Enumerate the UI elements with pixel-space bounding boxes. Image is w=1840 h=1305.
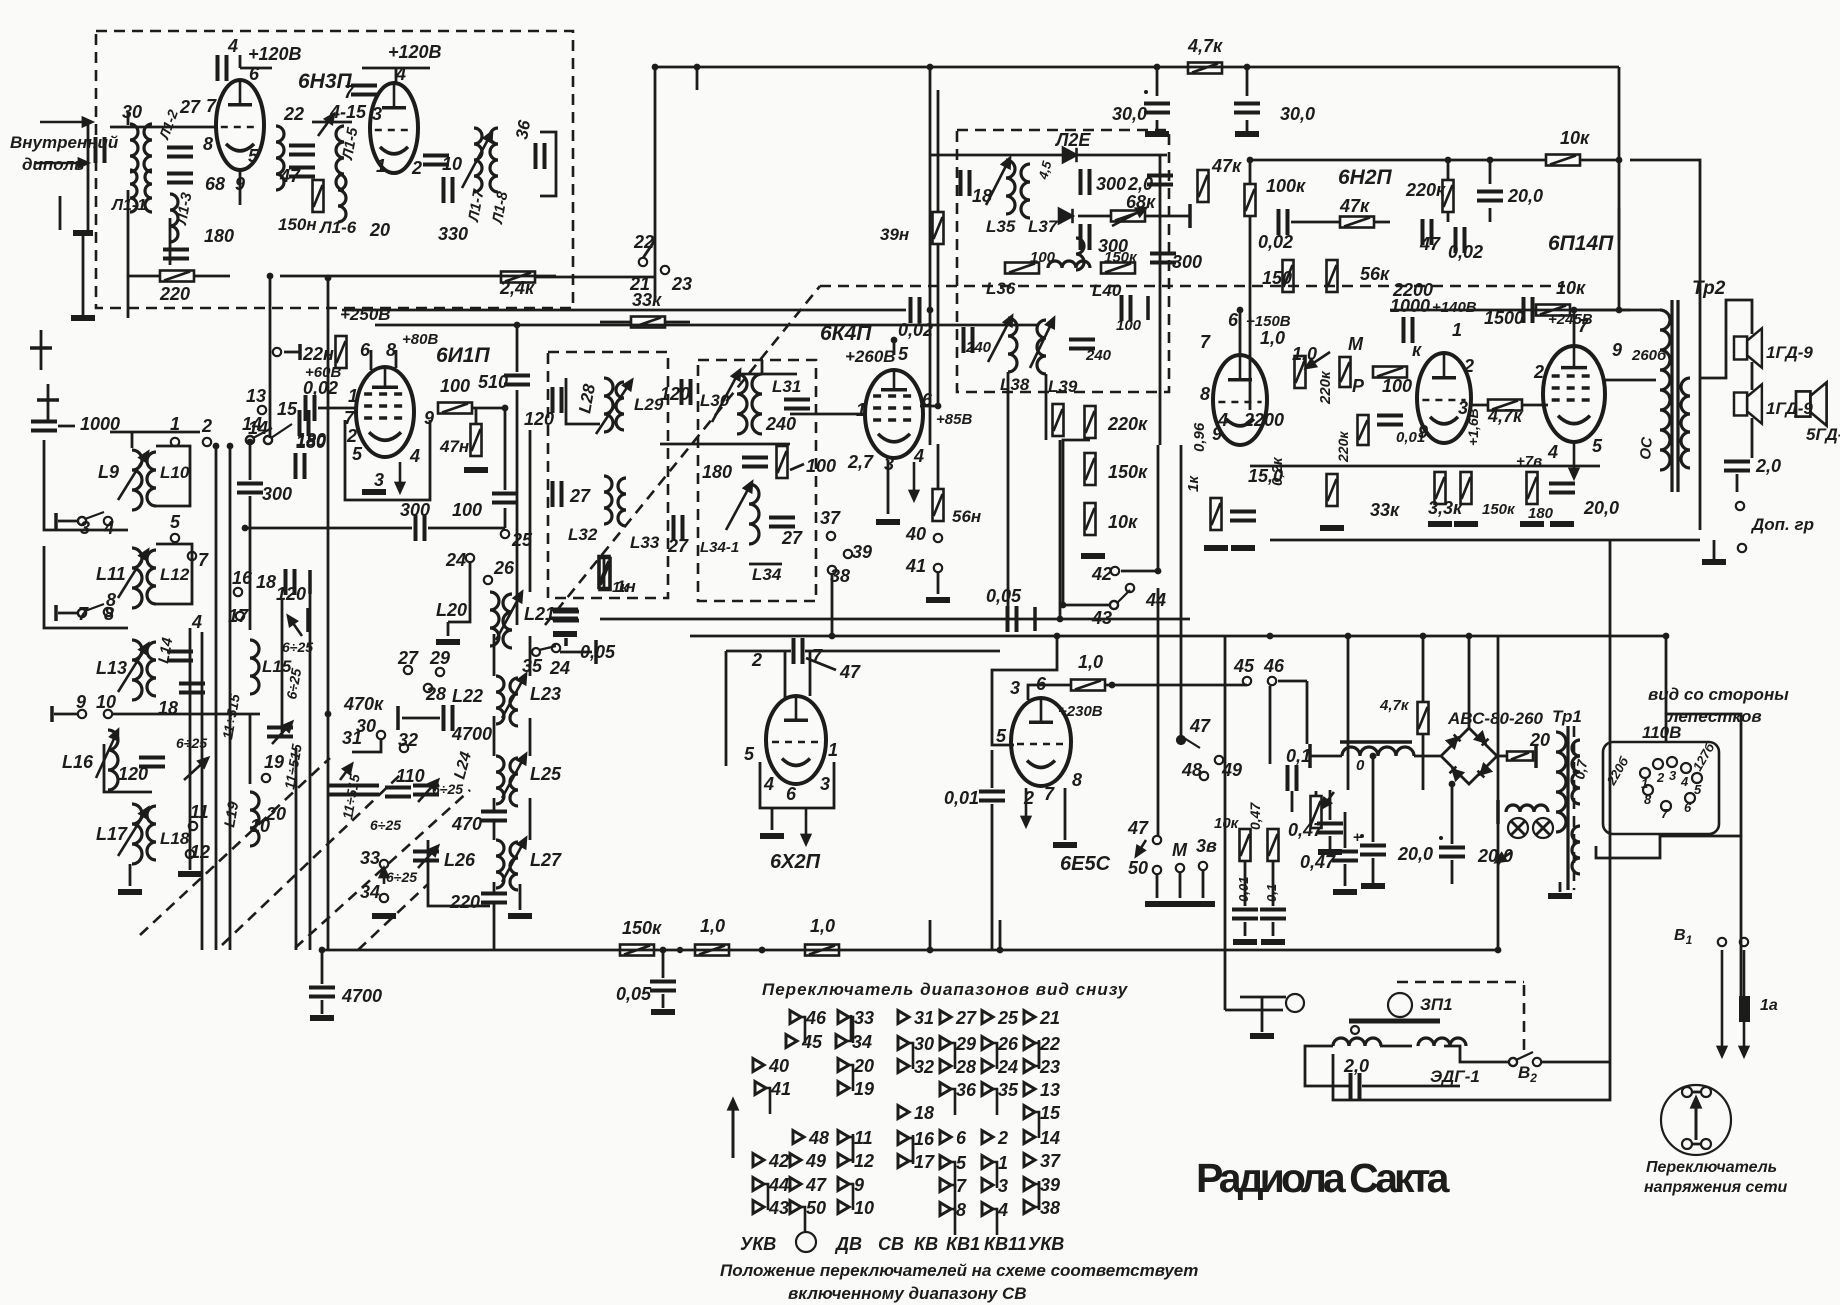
IF box 1 (548, 352, 668, 598)
svg-text:АВС-80-260: АВС-80-260 (1447, 709, 1544, 728)
matrix contact 19 (838, 1082, 849, 1095)
bar 1kr (564, 638, 568, 646)
svg-text:28: 28 (425, 684, 446, 704)
junction dot 22 (514, 322, 521, 329)
wire b2 top2 (761, 360, 764, 374)
coil L16 (108, 730, 118, 790)
svg-text:120: 120 (276, 584, 306, 604)
matrix contact 3 (982, 1179, 993, 1192)
svg-text:30,0: 30,0 (1112, 104, 1147, 124)
svg-text:L34: L34 (752, 565, 782, 584)
svg-text:10к: 10к (1108, 512, 1138, 532)
gang diagonal 2 (222, 775, 400, 945)
wire 47k r (1374, 221, 1390, 224)
svg-text:1,0: 1,0 (1078, 652, 1103, 672)
wire 47ps dn (1422, 734, 1425, 790)
junction dot 27 (213, 443, 220, 450)
svg-text:30: 30 (122, 102, 142, 122)
tube V4b 6Н2П (1417, 353, 1471, 443)
speaker 5ГД-14 (1796, 382, 1827, 425)
resistor 56н (933, 489, 944, 521)
speaker 1ГД-9 a (1734, 328, 1762, 367)
gnd 20,0 (1550, 521, 1574, 527)
svg-text:+140В: +140В (1432, 299, 1477, 316)
wire x930 bot (929, 920, 932, 950)
wire to grid (318, 407, 358, 410)
matrix contact 42 (753, 1154, 764, 1167)
svg-text:1: 1 (1641, 776, 1648, 791)
svg-text:21: 21 (1039, 1008, 1060, 1028)
wire L20 l (448, 562, 470, 622)
svg-text:22: 22 (633, 232, 654, 252)
wire 220k up (1447, 160, 1450, 180)
matrix contact 33 (838, 1011, 853, 1044)
selector pin 8 (1643, 785, 1653, 795)
wire x494 d (493, 822, 496, 840)
junction dot 26 (247, 439, 254, 446)
svg-text:300: 300 (400, 500, 430, 520)
svg-text:50: 50 (1128, 858, 1148, 878)
resistor 68к fm (1111, 211, 1145, 222)
gnd 33 (372, 913, 396, 919)
matrix contact 7 (940, 1179, 955, 1212)
wire ind top (1028, 685, 1071, 700)
matrix contact 13 (1024, 1083, 1035, 1096)
junction dot 42 (891, 337, 898, 344)
svg-text:27: 27 (569, 486, 591, 506)
node 43 (1110, 601, 1118, 609)
svg-text:0,02: 0,02 (303, 378, 338, 398)
wire k4 plate (893, 340, 896, 355)
resistor 2,4к (501, 272, 535, 283)
node 46 (1268, 677, 1276, 685)
wire motor 1 (1380, 1045, 1412, 1048)
junction b (759, 947, 765, 953)
bridge diode 2 (1475, 732, 1488, 745)
wire L9-1 (110, 431, 200, 434)
wire 47ps up (1422, 636, 1425, 702)
node 49c (1215, 756, 1223, 764)
svg-text:0,02: 0,02 (1258, 232, 1293, 252)
svg-text:L36: L36 (986, 279, 1016, 298)
motor coil a (1333, 1038, 1381, 1046)
wire det shield (725, 651, 728, 766)
svg-text:39: 39 (1040, 1175, 1060, 1195)
junction dot 31 (1178, 737, 1185, 744)
svg-text:2,4к: 2,4к (499, 278, 535, 298)
coil L25 (510, 758, 518, 806)
svg-text:22: 22 (283, 104, 304, 124)
svg-text:37: 37 (1040, 1151, 1061, 1171)
coil L21 (503, 594, 512, 648)
svg-text:1000: 1000 (1390, 296, 1430, 316)
L24 trimmer (502, 754, 526, 798)
resistor 220к mid (1085, 406, 1096, 438)
wire y444 (660, 443, 790, 446)
svg-text:6: 6 (249, 64, 260, 84)
svg-text:48: 48 (808, 1128, 829, 1148)
wire 30b dn (1246, 120, 1249, 132)
wire x1307 dn (1306, 681, 1309, 744)
tube V2 6И1П (356, 367, 414, 457)
svg-text:6И1П: 6И1П (436, 344, 490, 367)
bus top (655, 66, 1619, 69)
terminal 3 (54, 513, 58, 529)
svg-text:Тр1: Тр1 (1552, 707, 1582, 726)
wire L1 join (110, 126, 152, 129)
svg-text:1к: 1к (1185, 475, 1202, 492)
junction dot 9 (927, 947, 934, 954)
junction dot 28 (227, 443, 234, 450)
matrix contact 18 (898, 1106, 909, 1119)
pot tone (1311, 796, 1322, 828)
L16 trimmer (96, 730, 118, 778)
wire l27 gnd (519, 884, 522, 910)
gnd dop (1702, 559, 1726, 565)
svg-text:25: 25 (997, 1008, 1019, 1028)
svg-text:L20: L20 (436, 600, 467, 620)
wire 0.05 d (662, 994, 665, 1008)
node 35b (552, 644, 560, 652)
gnd 3,3k (1428, 521, 1452, 527)
svg-text:30: 30 (914, 1034, 934, 1054)
resistor 100 amp (1373, 367, 1407, 378)
wire 20a up (1372, 756, 1375, 842)
pointer 100 (790, 464, 804, 470)
wire 047ps (1329, 790, 1332, 820)
node 25 (501, 530, 509, 538)
wire l38 dn (1007, 372, 1010, 625)
svg-text:34: 34 (360, 882, 380, 902)
wire 43 l (1063, 604, 1110, 607)
svg-text:47н: 47н (439, 437, 469, 456)
cap 2200 amp (1404, 317, 1413, 343)
svg-text:6: 6 (1684, 800, 1692, 815)
junction dot 14 (1345, 633, 1352, 640)
wire x250 b (249, 496, 252, 630)
svg-text:300: 300 (1172, 252, 1202, 272)
coil L20 (490, 592, 499, 646)
svg-text:0,2к: 0,2к (1269, 456, 1286, 486)
wire y540 (1270, 539, 1700, 542)
resistor 47к (1198, 170, 1209, 202)
svg-text:46: 46 (805, 1008, 827, 1028)
wire v2 top (395, 68, 398, 84)
svg-text:1: 1 (1452, 320, 1462, 340)
cap 20,0 cath (1549, 484, 1575, 493)
matrix contact 32 (898, 1060, 909, 1073)
svg-text:L35: L35 (986, 217, 1016, 236)
svg-text:0,05: 0,05 (616, 984, 652, 1004)
resistor 100к (1245, 184, 1256, 216)
svg-text:6: 6 (1228, 310, 1239, 330)
matrix contact 21 (1024, 1011, 1035, 1024)
wire 33k left (600, 321, 631, 324)
gnd 41 (926, 597, 950, 603)
wire right loop (1630, 160, 1700, 530)
node 47j (1178, 737, 1184, 743)
wire 047 up (1344, 812, 1347, 848)
node 33 (380, 860, 388, 868)
resistor 33к (631, 317, 665, 328)
svg-text:18: 18 (914, 1103, 934, 1123)
pot 1,0 (1295, 356, 1306, 388)
wire 4700 up (321, 950, 324, 984)
switch B2 b (1533, 1058, 1541, 1066)
svg-text:470: 470 (451, 814, 482, 834)
svg-text:120: 120 (524, 409, 554, 429)
wire 30a dn (1156, 120, 1159, 132)
choke bar (1340, 740, 1412, 744)
lamp 2 x b (1536, 821, 1550, 835)
svg-text:27: 27 (781, 528, 803, 548)
tonearm circle (1388, 993, 1412, 1017)
cap 0.01 ind (979, 792, 1005, 801)
switch 22 (639, 258, 647, 266)
wire top bus drop left (654, 67, 657, 300)
node 1 (171, 438, 179, 446)
matrix contact 30 (898, 1037, 913, 1070)
svg-text:10: 10 (442, 154, 462, 174)
L10 box (156, 446, 190, 506)
switch 14b (246, 428, 272, 444)
wire v5 plate (1573, 310, 1576, 346)
svg-text:4700: 4700 (341, 986, 382, 1006)
cap 300 c2 (237, 484, 263, 493)
sel small a1 (1682, 1087, 1692, 1097)
svg-text:4700: 4700 (451, 724, 492, 744)
L38 trimmer (988, 316, 1012, 362)
node 14 (264, 436, 272, 444)
wire ind dn (991, 804, 994, 950)
coil L1-2 right (145, 170, 152, 212)
wire top of L1 (127, 112, 130, 125)
svg-text:L11: L11 (96, 564, 126, 584)
node 24d (466, 554, 474, 562)
selector plate 110В (1603, 742, 1719, 834)
gnd 10k mid (1081, 553, 1105, 559)
coil L39 (1037, 320, 1046, 374)
cap 2,0 out (1724, 462, 1750, 471)
cap 240 l (964, 327, 973, 353)
svg-text:0,1: 0,1 (1286, 746, 1311, 766)
selector pin 6 (1685, 793, 1695, 803)
svg-text:1а: 1а (1760, 997, 1778, 1014)
svg-text:2200: 2200 (1243, 410, 1284, 430)
wire 10k right (1580, 159, 1619, 162)
wire 1kr (603, 556, 606, 588)
cap 47a (289, 146, 315, 155)
cap 30,0 a (1144, 104, 1170, 113)
wire 47k (1291, 221, 1340, 224)
matrix contact 44 (753, 1178, 768, 1211)
wire trim (312, 121, 352, 124)
wire 0.05r (560, 651, 592, 654)
svg-text:0: 0 (1356, 757, 1365, 774)
switch 14 (264, 424, 292, 444)
svg-text:КВ11: КВ11 (984, 1234, 1027, 1254)
svg-text:15: 15 (277, 399, 298, 419)
wire k4 cath (887, 460, 890, 514)
junction dot 20 (1237, 307, 1244, 314)
svg-text:0,7: 0,7 (1571, 757, 1590, 780)
coil L18 (147, 806, 156, 860)
trim arr (272, 722, 292, 744)
lamp 2 (1533, 818, 1553, 838)
bar fm2 (1146, 296, 1150, 320)
plus 20a (1360, 834, 1364, 838)
svg-text:27: 27 (179, 97, 201, 117)
node 2 (203, 438, 211, 446)
svg-text:L10: L10 (160, 463, 190, 482)
svg-text:26: 26 (493, 558, 515, 578)
node 9 (78, 710, 86, 718)
matrix contact 6 (940, 1131, 951, 1144)
vertical x310 (309, 572, 312, 950)
svg-text:1ГД-9: 1ГД-9 (1766, 343, 1813, 362)
svg-text:+85В: +85В (936, 411, 972, 428)
wire x250 (249, 442, 252, 480)
wire 0.05 (662, 950, 665, 978)
node 10 (104, 710, 112, 718)
matrix contact 25 (982, 1011, 993, 1024)
svg-text:1: 1 (828, 740, 838, 760)
svg-text:6П14П: 6П14П (1548, 232, 1614, 255)
arrow 6.25 d (288, 616, 302, 636)
svg-text:4: 4 (227, 36, 238, 56)
cap L28 (553, 387, 562, 413)
svg-text:1,0: 1,0 (700, 916, 725, 936)
svg-text:4: 4 (1547, 442, 1558, 462)
wire 33k right (665, 321, 690, 324)
matrix arrow up (729, 1100, 737, 1158)
junction dot 43 (935, 403, 942, 410)
node 5 (171, 534, 179, 542)
resistor 220к amp (1443, 180, 1454, 212)
wire motor base (1333, 540, 1610, 1100)
svg-text:0,1: 0,1 (1264, 884, 1279, 902)
lamp coil (1506, 805, 1548, 812)
gnd 47н (464, 467, 488, 473)
svg-text:19: 19 (854, 1079, 874, 1099)
pot tone wiper (1322, 792, 1334, 808)
matrix contact 16 (898, 1132, 913, 1165)
bus y160 (1250, 159, 1545, 162)
cap 0.02 a (1279, 209, 1288, 235)
resistor 150н (313, 180, 324, 212)
dashed b2 v (1523, 985, 1526, 1056)
arrow 6х2п (802, 808, 810, 844)
cap 20,0 amp (1477, 192, 1503, 201)
svg-text:20: 20 (1529, 730, 1550, 750)
wire cap m r (1362, 1085, 1460, 1088)
svg-text:42: 42 (768, 1151, 789, 1171)
wire choke l (1310, 755, 1342, 758)
node 11 (189, 822, 197, 830)
wire x1181 (1180, 445, 1183, 740)
wire 46 r (1278, 680, 1307, 683)
svg-text:Радиола Сакта: Радиола Сакта (1196, 1155, 1451, 1201)
node M (1176, 864, 1184, 872)
wire bridge r (1497, 755, 1506, 758)
wire 047ps d (1329, 836, 1332, 850)
coil L33 (618, 478, 626, 526)
svg-text:33к: 33к (1370, 500, 1400, 520)
L12 box (156, 544, 192, 604)
arrow k4 pin4 (910, 462, 918, 500)
gnd tube (362, 489, 386, 495)
L13 trimmer (118, 644, 148, 692)
cap 0,47 (1332, 852, 1358, 861)
svg-text:L37: L37 (1028, 217, 1059, 236)
junction dot 16 (1466, 633, 1473, 640)
svg-text:3: 3 (1669, 768, 1677, 783)
svg-text:32: 32 (914, 1057, 934, 1077)
junction dot 2 (1244, 64, 1251, 71)
wire 30b (1246, 67, 1249, 96)
cap 30,0 b (1234, 104, 1260, 113)
matrix contact 2 (982, 1131, 993, 1144)
resistor 100b (777, 446, 788, 478)
svg-text:8: 8 (386, 340, 396, 360)
wire 510 dn (516, 390, 519, 625)
wire k4 grid (790, 413, 865, 416)
wire 47n up (475, 408, 478, 424)
svg-text:М: М (1172, 840, 1188, 860)
svg-text:СВ: СВ (878, 1234, 904, 1254)
svg-text:L17: L17 (96, 824, 128, 844)
svg-text:Л1-8: Л1-8 (489, 190, 512, 226)
svg-text:20,0: 20,0 (1507, 186, 1543, 206)
Tr1 core b (1573, 726, 1576, 890)
sel link b (1691, 1143, 1702, 1146)
wire rc a (1244, 861, 1247, 906)
svg-text:56к: 56к (1360, 264, 1390, 284)
wire y1010 (1225, 1009, 1283, 1012)
coil L12 (147, 550, 156, 604)
junction dot 25 (325, 711, 332, 718)
svg-text:10к: 10к (1214, 815, 1240, 832)
resistor 100 fm (1005, 263, 1039, 274)
matrix contact 49 (790, 1154, 801, 1167)
gang diagonal 1 (140, 758, 330, 935)
matrix contact 15 (1024, 1106, 1039, 1139)
svg-text:45: 45 (1233, 656, 1255, 676)
matrix contact 41 (755, 1082, 770, 1115)
resistor 0,47 (1268, 829, 1279, 861)
wire motor 2 (1444, 1046, 1509, 1062)
dashed b2 h (1397, 981, 1524, 984)
svg-text:0,02: 0,02 (1448, 242, 1483, 262)
svg-text:110: 110 (396, 766, 425, 786)
wire motor l (1240, 996, 1286, 999)
gnd 33k (1320, 525, 1344, 531)
node 26d (484, 576, 492, 584)
svg-text:0,01: 0,01 (1396, 429, 1425, 446)
svg-text:27: 27 (667, 536, 689, 556)
svg-text:L24: L24 (451, 750, 475, 781)
junction dot 36 (1155, 568, 1162, 575)
node 28d (424, 684, 432, 692)
svg-text:24: 24 (997, 1057, 1018, 1077)
junction dot 18 (1616, 307, 1623, 314)
arrow ind pin2 (1022, 788, 1030, 826)
svg-text:5: 5 (248, 146, 259, 166)
coil L37 (1021, 164, 1030, 218)
resistor 220 (160, 271, 194, 282)
node 41 (934, 564, 942, 572)
svg-text:33: 33 (360, 848, 380, 868)
